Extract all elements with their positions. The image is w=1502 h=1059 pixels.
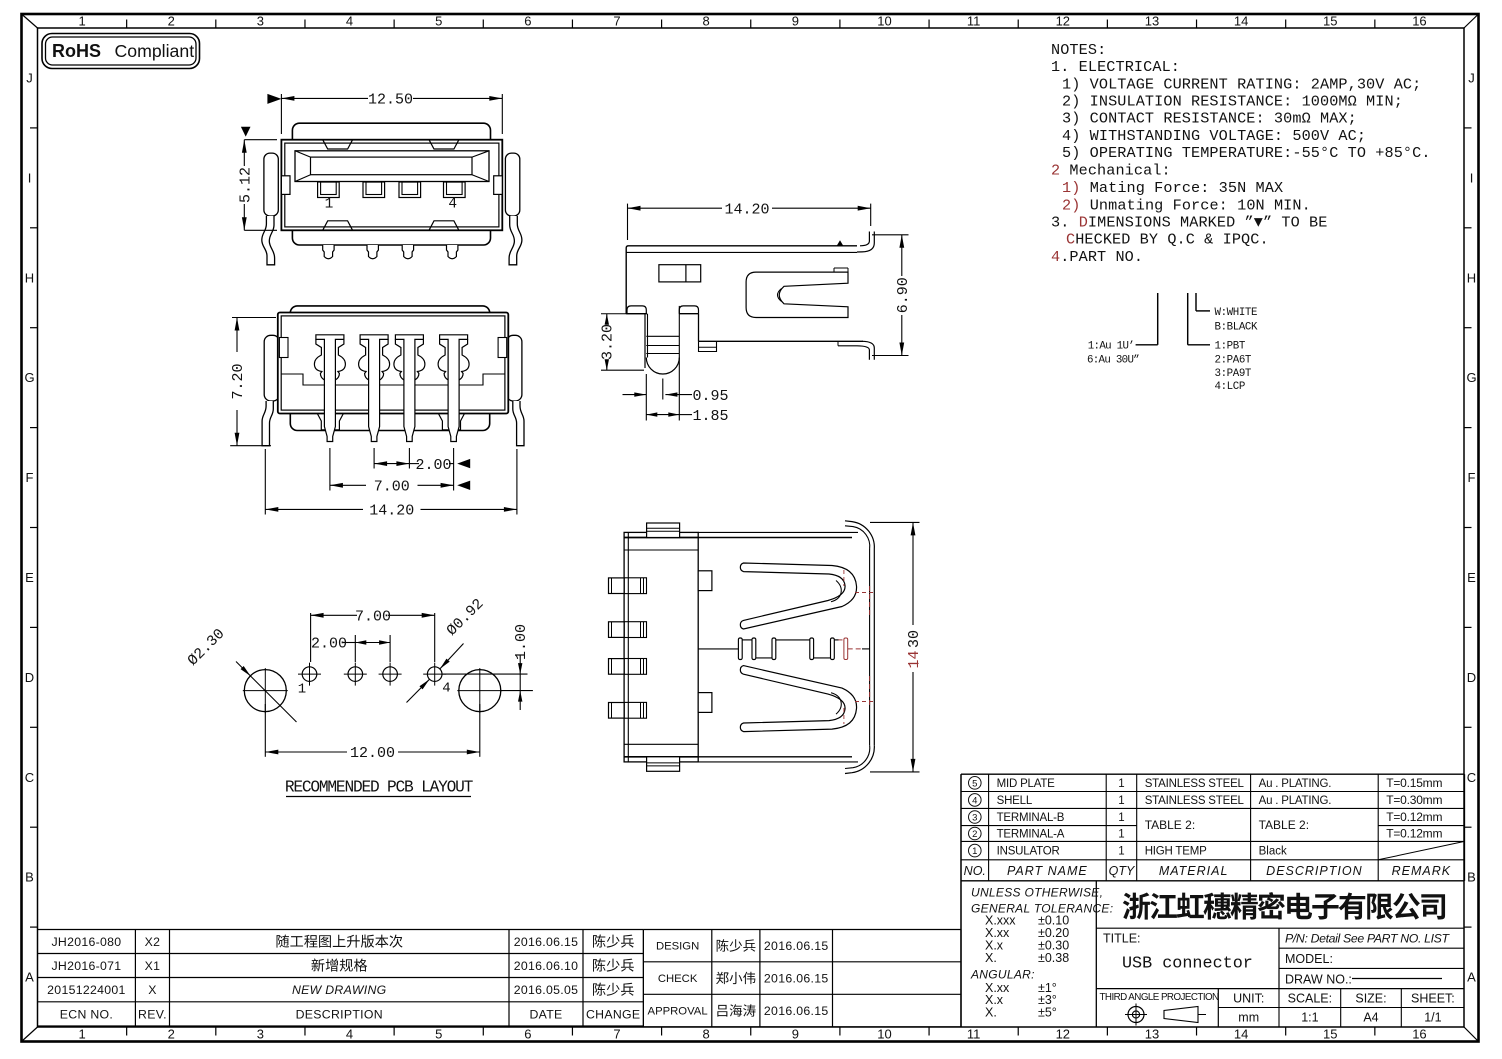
title block	[1096, 927, 1464, 929]
svg-text:T=0.12mm: T=0.12mm	[1386, 827, 1442, 841]
svg-text:Mechanical:: Mechanical:	[1069, 162, 1170, 180]
svg-text:T=0.30mm: T=0.30mm	[1386, 793, 1442, 807]
svg-text:1:Au 1U’: 1:Au 1U’	[1088, 341, 1134, 353]
svg-text:A: A	[25, 970, 34, 985]
svg-text:Au . PLATING.: Au . PLATING.	[1259, 778, 1332, 790]
svg-text:H: H	[25, 270, 34, 285]
dimension 1.85	[645, 374, 647, 421]
front view housing outline	[292, 123, 490, 245]
svg-text:TABLE 2:: TABLE 2:	[1259, 818, 1309, 832]
svg-text:1: 1	[78, 1027, 85, 1042]
svg-text:H: H	[1467, 270, 1476, 285]
svg-text:D: D	[1467, 670, 1476, 685]
svg-text:C: C	[1066, 231, 1075, 249]
svg-text:1:1: 1:1	[1301, 1011, 1318, 1025]
svg-text:3: 3	[972, 813, 977, 824]
datum triangle marker	[837, 240, 843, 245]
svg-text:7.00: 7.00	[374, 479, 410, 496]
svg-text:1: 1	[78, 14, 85, 29]
svg-text:2: 2	[168, 14, 175, 29]
svg-text:14: 14	[1234, 1027, 1248, 1042]
svg-text:4: 4	[448, 197, 457, 213]
svg-text:13: 13	[1145, 14, 1159, 29]
svg-text:F: F	[26, 470, 34, 485]
svg-text:UNIT:: UNIT:	[1233, 992, 1264, 1006]
mounting hole right	[459, 670, 501, 712]
svg-text:4: 4	[346, 1027, 353, 1042]
front view metal shell face	[281, 140, 502, 231]
svg-text:NOTES:: NOTES:	[1051, 41, 1106, 59]
svg-text:3.: 3.	[1051, 214, 1069, 232]
svg-text:12: 12	[1056, 1027, 1070, 1042]
pcb dim 1.00	[442, 673, 528, 675]
svg-text:DESCRIPTION: DESCRIPTION	[296, 1007, 383, 1021]
front view left bent leg	[262, 216, 275, 265]
svg-text:J: J	[26, 70, 33, 85]
rear view right bent leg	[513, 401, 524, 446]
svg-text:Mating Force: 35N MAX: Mating Force: 35N MAX	[1090, 179, 1284, 197]
bottom view pin stubs	[609, 578, 625, 594]
svg-text:T=0.15mm: T=0.15mm	[1386, 776, 1442, 790]
bottom view lower spring contact	[740, 666, 856, 732]
dimension 12.50	[280, 94, 282, 134]
svg-text:1: 1	[1118, 795, 1124, 807]
svg-text:0.95: 0.95	[693, 388, 729, 405]
svg-text:14: 14	[1234, 14, 1248, 29]
svg-text:.PART NO.: .PART NO.	[1060, 248, 1143, 266]
svg-text:5) OPERATING TEMPERATURE:-55°C: 5) OPERATING TEMPERATURE:-55°C TO +85°C.	[1062, 144, 1431, 162]
svg-text:1: 1	[298, 682, 306, 698]
svg-text:USB connector: USB connector	[1122, 955, 1253, 974]
svg-text:16: 16	[1412, 1027, 1426, 1042]
svg-text:REMARK: REMARK	[1392, 864, 1451, 878]
svg-text:12.00: 12.00	[350, 745, 395, 762]
bottom view shell flange lines	[698, 531, 858, 533]
svg-text:12.50: 12.50	[368, 92, 413, 109]
svg-text:PART NAME: PART NAME	[1007, 864, 1088, 878]
side view window	[659, 265, 701, 282]
svg-text:D: D	[25, 670, 34, 685]
svg-text:JH2016-071: JH2016-071	[51, 959, 121, 973]
svg-text:13: 13	[1145, 1027, 1159, 1042]
svg-text:2016.06.15: 2016.06.15	[514, 935, 579, 949]
svg-text:B:BLACK: B:BLACK	[1215, 322, 1258, 334]
bottom view middle contacts	[698, 648, 738, 650]
svg-text:1): 1)	[1062, 179, 1080, 197]
checked marker right-pointing	[267, 94, 281, 104]
svg-text:DESCRIPTION: DESCRIPTION	[1266, 864, 1362, 878]
svg-text:J: J	[1468, 70, 1475, 85]
dimension 3.20	[601, 313, 645, 315]
side view body	[626, 246, 857, 314]
svg-text:2.00: 2.00	[311, 636, 347, 653]
bottom view latch bumps	[698, 571, 712, 591]
svg-text:TERMINAL-B: TERMINAL-B	[997, 812, 1065, 824]
bottom view right curls	[873, 549, 875, 745]
svg-text:C: C	[25, 770, 34, 785]
pcb dia 2.30 leader	[236, 662, 297, 723]
svg-text:10: 10	[877, 14, 891, 29]
svg-text:A: A	[1467, 970, 1476, 985]
svg-text:1:PBT: 1:PBT	[1215, 341, 1246, 353]
dimension 2.00	[373, 448, 375, 469]
svg-text:4: 4	[972, 795, 977, 806]
svg-text:16: 16	[1412, 14, 1426, 29]
svg-text:2: 2	[972, 829, 977, 840]
svg-text:C: C	[1467, 770, 1476, 785]
rear view left wing	[264, 335, 279, 401]
svg-text:14: 14	[906, 650, 923, 668]
svg-text:RoHS: RoHS	[52, 41, 101, 61]
svg-text:1: 1	[1118, 812, 1124, 824]
svg-text:SIZE:: SIZE:	[1355, 992, 1386, 1006]
side view right rolled edge top	[857, 232, 874, 253]
dimension 6.90	[872, 234, 909, 236]
svg-text:12: 12	[1056, 14, 1070, 29]
svg-text:Black: Black	[1259, 846, 1287, 858]
svg-text:3: 3	[257, 1027, 264, 1042]
dimension 7.00	[329, 448, 331, 491]
front view tongue	[295, 151, 489, 182]
svg-text:HIGH TEMP: HIGH TEMP	[1145, 846, 1207, 858]
svg-text:ECN NO.: ECN NO.	[60, 1007, 113, 1021]
svg-text:W:WHITE: W:WHITE	[1215, 307, 1258, 319]
svg-text:4) WITHSTANDING VOLTAGE: 500V: 4) WITHSTANDING VOLTAGE: 500V AC;	[1062, 127, 1366, 145]
approval block	[643, 929, 961, 931]
svg-text:MATERIAL: MATERIAL	[1159, 864, 1229, 878]
svg-text:5: 5	[435, 14, 442, 29]
rear view housing	[290, 306, 489, 431]
svg-text:2: 2	[1051, 162, 1060, 180]
svg-text:1: 1	[1118, 846, 1124, 858]
svg-text:2016.06.10: 2016.06.10	[514, 959, 579, 973]
svg-text:SHELL: SHELL	[997, 795, 1033, 807]
svg-text:9: 9	[792, 14, 799, 29]
svg-text:10: 10	[877, 1027, 891, 1042]
svg-text:7: 7	[613, 14, 620, 29]
svg-text:2016.06.15: 2016.06.15	[764, 1004, 829, 1018]
svg-text:DESIGN: DESIGN	[656, 941, 699, 953]
revision table	[38, 929, 644, 931]
svg-text:1: 1	[972, 846, 977, 857]
svg-text:1.00: 1.00	[513, 624, 530, 660]
svg-text:MID PLATE: MID PLATE	[997, 778, 1056, 790]
svg-text:F: F	[1468, 470, 1476, 485]
pcb dim 12.00	[264, 704, 266, 757]
svg-text:14.20: 14.20	[724, 201, 769, 218]
svg-text:30: 30	[906, 630, 923, 648]
svg-text:4: 4	[442, 681, 450, 697]
svg-text:RECOMMENDED PCB LAYOUT: RECOMMENDED PCB LAYOUT	[285, 779, 474, 797]
dimension 14.20 side	[627, 204, 629, 240]
svg-text:STAINLESS STEEL: STAINLESS STEEL	[1145, 795, 1245, 807]
svg-text:I: I	[1470, 170, 1474, 185]
svg-text:15: 15	[1323, 1027, 1337, 1042]
svg-text:D: D	[1079, 214, 1088, 232]
svg-text:3: 3	[257, 14, 264, 29]
svg-text:4: 4	[346, 14, 353, 29]
checked marker down-pointing	[241, 127, 251, 137]
side view right rolled edge bottom	[862, 341, 874, 360]
svg-text:Unmating Force: 10N MIN.: Unmating Force: 10N MIN.	[1090, 197, 1311, 215]
svg-text:14.20: 14.20	[369, 503, 414, 520]
svg-text:3:PA9T: 3:PA9T	[1215, 368, 1252, 380]
svg-text:2): 2)	[1062, 197, 1080, 215]
svg-text:E: E	[25, 570, 34, 585]
svg-text:15: 15	[1323, 14, 1337, 29]
svg-text:TABLE 2:: TABLE 2:	[1145, 818, 1195, 832]
svg-text:APPROVAL: APPROVAL	[648, 1006, 708, 1018]
rear view left bent leg	[262, 401, 273, 446]
svg-text:1.85: 1.85	[693, 408, 729, 425]
svg-text:CHECK: CHECK	[658, 973, 698, 985]
rear view bottom tabs	[317, 414, 343, 430]
svg-text:G: G	[24, 370, 34, 385]
svg-text:3.20: 3.20	[600, 324, 617, 360]
dimension 0.95	[662, 379, 664, 400]
svg-text:1: 1	[1118, 829, 1124, 841]
svg-text:B: B	[1467, 870, 1476, 885]
svg-text:9: 9	[792, 1027, 799, 1042]
front view left side clip	[264, 153, 278, 216]
svg-text:1: 1	[1118, 778, 1124, 790]
svg-text:QTY: QTY	[1109, 864, 1136, 878]
svg-text:DRAW NO.:: DRAW NO.:	[1285, 973, 1352, 987]
front view top tabs	[323, 140, 353, 149]
svg-text:B: B	[25, 870, 34, 885]
svg-text:E: E	[1467, 570, 1476, 585]
front view bottom pegs	[323, 245, 334, 259]
svg-text:IMENSIONS MARKED ”▼” TO BE: IMENSIONS MARKED ”▼” TO BE	[1088, 214, 1328, 232]
dimension 14.20 rear	[264, 449, 266, 515]
svg-text:1) VOLTAGE CURRENT RATING: 2AM: 1) VOLTAGE CURRENT RATING: 2AMP,30V AC;	[1062, 76, 1421, 94]
svg-text:Compliant: Compliant	[115, 41, 195, 61]
svg-text:6:Au 30U”: 6:Au 30U”	[1087, 354, 1139, 366]
svg-text:NEW DRAWING: NEW DRAWING	[292, 983, 387, 997]
rear view shell	[278, 313, 509, 414]
svg-text:2.00: 2.00	[415, 457, 451, 474]
svg-text:SCALE:: SCALE:	[1288, 992, 1332, 1006]
bottom view housing block	[624, 532, 698, 762]
svg-text:8: 8	[703, 14, 710, 29]
svg-text:11: 11	[967, 1027, 981, 1042]
rear view right wing	[507, 335, 522, 401]
svg-text:NO.: NO.	[964, 864, 986, 878]
svg-text:UNLESS OTHERWISE,: UNLESS OTHERWISE,	[971, 886, 1103, 900]
svg-text:MODEL:: MODEL:	[1285, 952, 1333, 966]
svg-text:8: 8	[703, 1027, 710, 1042]
svg-text:X2: X2	[145, 935, 161, 949]
svg-text:INSULATOR: INSULATOR	[997, 846, 1060, 858]
svg-text:A4: A4	[1363, 1011, 1378, 1025]
svg-text:2016.06.15: 2016.06.15	[764, 972, 829, 986]
svg-text:STAINLESS STEEL: STAINLESS STEEL	[1145, 778, 1245, 790]
svg-text:2) INSULATION RESISTANCE: 1000: 2) INSULATION RESISTANCE: 1000MΩ MIN;	[1062, 93, 1403, 111]
svg-text:1/1: 1/1	[1424, 1011, 1441, 1025]
svg-text:I: I	[28, 170, 32, 185]
front view right side clip	[505, 153, 519, 216]
dimension 5.12	[244, 139, 277, 141]
svg-text:7.20: 7.20	[230, 363, 247, 399]
svg-text:TITLE:: TITLE:	[1103, 932, 1141, 946]
front view right bent leg	[509, 216, 522, 265]
svg-text:Au . PLATING.: Au . PLATING.	[1259, 795, 1332, 807]
svg-text:6: 6	[524, 14, 531, 29]
pcb dia 0.92 leader	[440, 644, 464, 669]
bottom view top peg	[647, 523, 680, 538]
side view standoff bumps	[627, 306, 646, 314]
dimension 14.30	[870, 521, 920, 523]
svg-text:P/N: Detail See PART NO. LIST: P/N: Detail See PART NO. LIST	[1285, 932, 1450, 946]
BOM diagonal in remark cell	[1378, 841, 1464, 859]
svg-text:4: 4	[1051, 248, 1060, 266]
side view spring latch	[746, 272, 848, 317]
svg-text:X: X	[148, 983, 157, 997]
svg-text:REV.: REV.	[138, 1007, 167, 1021]
dimension 7.20	[232, 317, 276, 319]
svg-text:HECKED BY Q.C & IPQC.: HECKED BY Q.C & IPQC.	[1075, 231, 1269, 249]
svg-text:5: 5	[435, 1027, 442, 1042]
svg-text:±0.38: ±0.38	[1038, 951, 1069, 965]
svg-text:THIRD ANGLE PROJECTION: THIRD ANGLE PROJECTION	[1100, 992, 1220, 1003]
svg-text:mm: mm	[1238, 1011, 1259, 1025]
tolerance block	[960, 881, 962, 1027]
svg-text:11: 11	[967, 14, 981, 29]
svg-text:TERMINAL-A: TERMINAL-A	[997, 829, 1065, 841]
part number decode tree	[1157, 293, 1159, 345]
svg-text:2:PA6T: 2:PA6T	[1215, 354, 1252, 366]
svg-text:4:LCP: 4:LCP	[1215, 381, 1245, 393]
svg-text:2016.06.15: 2016.06.15	[764, 939, 829, 953]
svg-text:DATE: DATE	[529, 1007, 562, 1021]
svg-text:1. ELECTRICAL:: 1. ELECTRICAL:	[1051, 58, 1180, 76]
svg-text:X.: X.	[985, 951, 997, 965]
svg-text:5.12: 5.12	[237, 167, 254, 203]
bottom view bottom peg	[647, 757, 680, 772]
RoHS Compliant badge	[42, 34, 200, 69]
hidden lines red	[844, 638, 848, 660]
svg-text:X.: X.	[985, 1006, 997, 1020]
svg-text:X1: X1	[145, 959, 161, 973]
svg-text:ANGULAR:: ANGULAR:	[970, 968, 1035, 982]
pcb dim 7.00	[310, 613, 312, 662]
svg-text:7.00: 7.00	[355, 609, 391, 626]
front view contact slots	[318, 182, 340, 198]
svg-text:6: 6	[524, 1027, 531, 1042]
side view leg	[644, 314, 646, 368]
company name	[1123, 892, 1445, 920]
svg-text:7: 7	[613, 1027, 620, 1042]
bottom view upper spring contact	[740, 563, 856, 629]
svg-text:T=0.12mm: T=0.12mm	[1386, 810, 1442, 824]
svg-text:CHANGE: CHANGE	[586, 1007, 640, 1021]
svg-text:JH2016-080: JH2016-080	[51, 935, 121, 949]
pcb dim 2.00	[354, 635, 356, 662]
svg-text:1: 1	[325, 197, 334, 213]
svg-text:±5°: ±5°	[1038, 1006, 1057, 1020]
svg-text:2: 2	[168, 1027, 175, 1042]
svg-text:20151224001: 20151224001	[47, 983, 126, 997]
svg-text:2016.05.05: 2016.05.05	[514, 983, 579, 997]
cone symbol	[1164, 1007, 1198, 1023]
svg-text:3) CONTACT RESISTANCE: 30mΩ MA: 3) CONTACT RESISTANCE: 30mΩ MAX;	[1062, 110, 1357, 128]
BOM parts table	[961, 773, 1465, 775]
svg-text:6.90: 6.90	[895, 277, 912, 313]
svg-text:G: G	[1466, 370, 1476, 385]
pin holes	[302, 667, 317, 682]
mounting hole left	[244, 670, 286, 712]
svg-text:SHEET:: SHEET:	[1411, 992, 1455, 1006]
svg-text:5: 5	[972, 778, 977, 789]
